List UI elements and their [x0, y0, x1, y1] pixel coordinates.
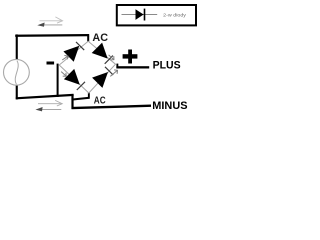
wire top-vertex stub: [87, 36, 89, 42]
wire minus-node drop vertical: [57, 64, 59, 97]
wire PLUS output line: [116, 66, 149, 68]
svg-text:2-w diody: 2-w diody: [163, 12, 187, 17]
plus symbol at + node: [123, 54, 138, 58]
diode D1 (top-left, pointing to top AC node): [63, 46, 79, 62]
diode D4 (bottom-right, pointing to + node): [92, 72, 108, 88]
minus symbol at - node: [47, 62, 55, 65]
annotation arrow bottom right-pointing: [38, 100, 62, 106]
annotation arrow bottom left-pointing: [35, 107, 61, 111]
legend box: [117, 5, 196, 25]
diode D3 cathode bar: [77, 82, 85, 90]
wire bottom horizontal from source: [16, 95, 74, 98]
diode D3 (bottom-left, pointing to bottom AC node): [64, 69, 80, 85]
wire step vertical to minus line: [71, 94, 73, 109]
diode D2 (top-right, pointing to + node): [92, 43, 108, 59]
diode D4 cathode bar: [105, 67, 113, 75]
svg-text:AC: AC: [94, 95, 106, 106]
diode D2 cathode bar: [105, 56, 113, 64]
AC source sine squiggle: [15, 61, 18, 85]
legend diode cathode bar: [144, 9, 146, 21]
svg-text:PLUS: PLUS: [153, 59, 181, 71]
current arrow near plus node lower (up-right): [110, 70, 117, 77]
svg-text:MINUS: MINUS: [152, 100, 187, 112]
wire top horizontal: [15, 34, 89, 37]
current arrow near minus node upper (up-right): [62, 55, 68, 60]
AC source V1 (circle): [4, 59, 30, 85]
current arrow near minus node lower (down-right): [61, 72, 66, 77]
annotation arrow top right-pointing: [40, 17, 63, 23]
wire bottom-vertex stub: [88, 92, 90, 98]
annotation arrow top left-pointing: [37, 23, 62, 27]
legend diode lead line: [122, 14, 158, 16]
current arrow near plus node upper (down-right): [109, 55, 114, 60]
wire left vertical lower: [16, 84, 18, 99]
wire MINUS output line: [72, 106, 152, 108]
wire low horizontal to bottom node: [72, 98, 90, 100]
wire plus-vertex stub: [116, 64, 118, 69]
legend diode triangle: [136, 9, 144, 20]
diode D1 cathode bar: [76, 42, 84, 50]
svg-text:AC: AC: [92, 32, 108, 44]
wire left vertical upper: [16, 34, 18, 60]
bridge diamond outline: [59, 41, 115, 93]
